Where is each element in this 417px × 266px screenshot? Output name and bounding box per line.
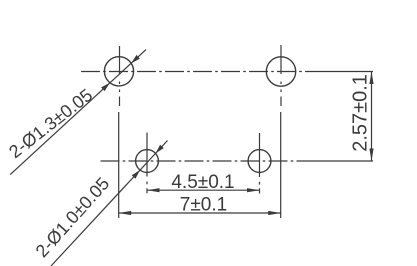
- arrowhead leader 1.3 upper: [131, 55, 140, 63]
- leader line dia 1.3: [10, 50, 146, 175]
- arrowhead 4.5 left: [147, 188, 160, 192]
- svg-text:4.5±0.1: 4.5±0.1: [171, 172, 234, 193]
- arrowhead 7 right: [268, 211, 281, 215]
- arrowhead 2.57 bottom: [369, 149, 373, 162]
- arrowhead 4.5 right: [247, 188, 260, 192]
- dimension line 4.5: [147, 189, 260, 191]
- centerline vertical hole top-left: [119, 46, 121, 106]
- extension line right for 7 dimension: [280, 112, 282, 218]
- wire top centerline solid extension to dimension line: [310, 71, 373, 73]
- arrowhead 2.57 top: [369, 72, 373, 85]
- dimension line 2.57 vertical: [371, 72, 373, 162]
- leader line dia 1.0: [51, 141, 168, 266]
- wire bottom centerline solid extension to dimension line: [305, 160, 373, 162]
- hole circle bottom-left: [136, 150, 159, 173]
- arrowhead leader 1.3 lower: [101, 83, 110, 91]
- arrowhead 7 left: [119, 211, 132, 215]
- svg-text:2.57±0.1: 2.57±0.1: [350, 74, 372, 152]
- hole circle bottom-right: [248, 150, 271, 173]
- svg-text:7±0.1: 7±0.1: [180, 195, 227, 216]
- centerline vertical hole bottom-right: [259, 133, 261, 194]
- hole circle top-right: [266, 57, 295, 86]
- hole circle top-left: [104, 57, 133, 86]
- centerline vertical hole bottom-left: [146, 133, 148, 194]
- dimension line 7: [119, 212, 281, 214]
- extension line left for 7 dimension: [118, 112, 120, 218]
- centerline horizontal bottom row: [101, 160, 306, 162]
- arrowhead leader 1.0 upper: [156, 145, 164, 154]
- arrowhead leader 1.0 lower: [132, 170, 140, 179]
- centerline vertical hole top-right: [280, 45, 282, 106]
- centerline horizontal top row: [81, 71, 310, 73]
